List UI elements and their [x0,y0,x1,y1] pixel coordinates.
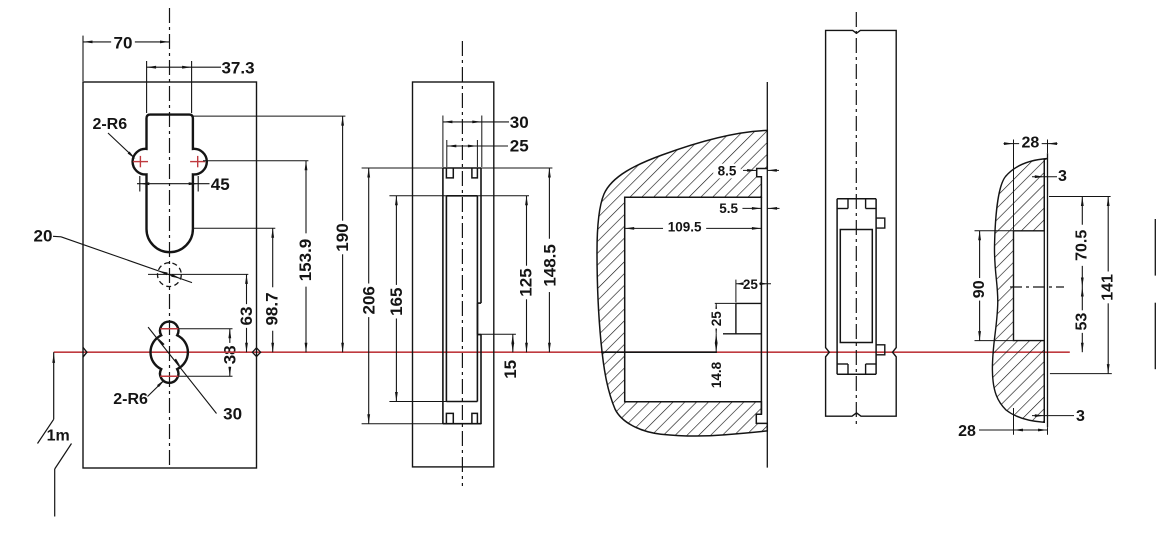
view4 bottom-left notch [837,363,848,365]
dim 148.5 text [541,239,558,292]
dim 153.9 arrows [305,161,308,171]
view1 left-edge break chevron at axis [83,347,87,357]
view2 outer rectangle [413,82,494,467]
dim 98.7 arrows [271,228,274,238]
view2 inner slot left edge [445,196,447,402]
dim 25h arrows [736,282,744,285]
dim 15 line [512,334,514,352]
dim 90 extensions [975,230,1014,232]
view4 slot top line [837,198,876,200]
dim 25v line [715,303,717,333]
view4 slot left edge [836,199,838,375]
view2 inner slot right edge [476,196,478,402]
view1 keyhole slot [133,115,207,253]
dim 190 extension [193,115,346,117]
dim 8.5 line left part [743,169,757,171]
view2 inner slot bottom line + extensions [389,401,477,403]
dim 141 text [1100,271,1116,303]
view5 wall inner line [1043,159,1045,423]
dim 153.9 text [297,233,314,286]
view2 top-right notch [472,168,478,178]
dim 38 arrows [228,329,231,339]
view1 vertical centerline [169,8,171,466]
dim 8.5 line right part [767,169,779,171]
dim 15 arrows [511,334,514,344]
svg-text:14.8: 14.8 [709,361,724,388]
red axis overlay across 38 text [221,351,240,353]
svg-text:5.5: 5.5 [719,201,738,216]
svg-text:28: 28 [958,423,976,440]
svg-text:38: 38 [221,345,240,364]
dim 70.5 extension [1049,196,1111,198]
view2 vertical centerline [461,41,463,486]
svg-text:63: 63 [237,307,256,326]
dim 28 top extensions [1013,140,1015,231]
dim 70 text [111,34,135,51]
dim 70.5 arrows [1081,197,1084,207]
scale 1m line upper [53,352,55,419]
dim 70.5 line [1081,197,1083,288]
dim 98.7 text [264,287,281,330]
view3 frame datum line (full height) [766,82,768,468]
view4 right ext notch lower [876,345,885,355]
dim 28 bottom arrows [1014,429,1024,432]
view2 slot right edge upper [480,168,482,303]
svg-text:8.5: 8.5 [718,164,737,179]
dim 28 bottom line [979,429,1048,431]
svg-text:25: 25 [743,277,759,292]
dim 90 line [979,231,981,341]
dim 109.5 arrows [625,227,635,230]
svg-text:190: 190 [333,223,352,251]
svg-text:15: 15 [501,360,520,379]
view3 latch step notch [736,302,762,304]
dim 98.7 extension [193,227,275,229]
dim 70.5 text [1074,225,1090,266]
label 2-R6 bottom leader [148,381,164,397]
view4 outer outline with break marks [826,30,897,416]
scale 1m break zigzag [38,419,54,443]
view5 hatched cap body [992,159,1047,423]
clover top red tick [160,328,178,330]
view4 top-right notch [866,208,877,210]
keyhole right ear red cross [190,161,205,163]
svg-text:206: 206 [360,286,379,314]
dim 63 text [238,304,255,328]
dim 8.5 text [713,164,740,179]
dim 14.8 extension black over axis [601,351,717,353]
keyhole left ear red cross [133,161,148,163]
dim 38 line [229,329,231,377]
view1 small circle (dia 20, dashed) [158,263,182,287]
dim 30 line [443,121,509,123]
dim 45 arrows [140,182,150,185]
view1 clover hole [151,322,188,383]
dim 125 line [526,196,528,352]
dim 63 line [246,274,248,352]
svg-text:1m: 1m [47,428,70,445]
dim 153.9 extension [203,160,308,162]
dim 3 top line [1032,176,1057,178]
dim 25h text [742,278,760,291]
label 2-R6 top leader [108,133,134,158]
view4 vertical centerline [855,12,857,427]
dim 45 line [137,183,210,185]
dim 37.3 arrows [147,66,157,69]
clover bottom red tick [160,375,178,377]
svg-text:25: 25 [510,137,529,156]
svg-text:98.7: 98.7 [263,292,282,325]
svg-text:70.5: 70.5 [1074,230,1091,261]
dim 125 text [517,266,534,300]
dim 165 line [395,196,397,402]
dim 28 top arrows [1004,142,1014,145]
view4 bottom-right notch [866,363,877,365]
dim 165 text [388,285,405,319]
dim 25h extension [735,280,737,303]
dim 70 line [83,41,170,43]
dim 141 line [1107,197,1109,374]
label 30 leader arrows [158,338,165,346]
dim 25 arrows [447,145,457,148]
dim 190 line [342,116,344,352]
dim 190 arrows [341,116,344,126]
dim 53 arrows [1081,287,1084,297]
dim 190 text [334,221,351,255]
dim 25 extensions [446,140,448,167]
view3 hatched section body [597,130,767,436]
svg-text:2-R6: 2-R6 [92,116,127,133]
dim 28 bottom extensions [1013,408,1015,435]
svg-text:37.3: 37.3 [221,58,254,77]
view4 slot bottom line [837,373,876,375]
view4 slot right edge [875,199,877,375]
dim 98.7 line [272,228,274,352]
dim 30 extensions [442,116,444,168]
svg-text:45: 45 [211,175,230,194]
dim 148.5 line [548,168,550,352]
dim 53 line [1081,287,1083,352]
view2 slot left edge [442,168,444,424]
view2 slot right edge lower [480,335,482,424]
dim 125 arrows [525,196,528,206]
dim 37.3 extensions [146,61,148,113]
dim 206 arrows [367,168,370,178]
dim 3 bottom line [1032,415,1074,417]
view4 right ext notch upper [876,218,885,228]
svg-text:125: 125 [517,268,536,296]
view4 inner rectangle [840,230,872,343]
dim 5.5 line right part [768,207,780,209]
svg-text:3: 3 [1058,168,1067,185]
svg-text:90: 90 [971,280,988,298]
svg-text:2-R6: 2-R6 [113,391,148,408]
view2 bottom-right notch [472,413,478,423]
view2 top-left notch [446,168,453,178]
dim 28 top line [1004,143,1058,145]
svg-text:3: 3 [1076,408,1085,425]
view5 horizontal centerline [1010,286,1064,288]
svg-text:165: 165 [387,288,406,316]
svg-text:109.5: 109.5 [668,220,702,235]
view5 wall outer line [1047,153,1049,427]
dim 109.5 text [663,220,706,235]
dim 30 arrows [443,121,453,124]
dim 206 text [361,284,378,318]
dim 53 text [1074,310,1090,333]
dim 206 line [368,168,370,424]
svg-text:148.5: 148.5 [541,244,560,287]
svg-text:30: 30 [223,405,242,424]
svg-text:70: 70 [114,33,133,52]
view1 right-edge diamond node at axis [252,348,260,357]
view3 cavity right edge [760,197,762,414]
view2 slot bottom line + extensions [362,423,482,425]
dim 5.5 line left part [738,207,762,209]
scale 1m line lower [54,469,56,517]
dim 63 extension [148,273,248,275]
dim 141 arrows [1107,197,1110,207]
svg-text:53: 53 [1074,313,1091,331]
dim 5.5 text [715,201,742,216]
dim 90 arrows [978,231,981,241]
svg-text:153.9: 153.9 [296,239,315,282]
label 30 leader [148,327,216,413]
view4 top-left notch [837,208,848,210]
svg-text:20: 20 [34,227,53,246]
dim 14.8 arrows [715,334,718,344]
dim 70 extension above plate [82,36,84,81]
svg-text:25: 25 [709,311,724,327]
label 20 leader [53,235,61,238]
svg-text:30: 30 [510,113,529,132]
red horizontal centerline (main axis) [54,351,1070,353]
view2 bottom-left notch [446,413,453,423]
dim 148.5 arrows [548,168,551,178]
dim 38 text [221,343,238,367]
dim 25 line [447,145,508,147]
dim 70 arrows [83,41,93,44]
dim 63 arrows [245,274,248,284]
view2 inner slot top line + extensions [389,195,529,197]
dim 109.5 line [625,227,762,229]
label 20 leader arrows [158,271,167,276]
dim 141 extension bottom [1050,373,1112,375]
dim 28 top text [1019,135,1042,151]
dim 165 arrows [395,196,398,206]
dim 153.9 line [305,161,307,353]
dim 25v arrows [715,303,718,313]
dim 37.3 line [147,66,221,68]
view2 slot top line + extensions [362,167,553,169]
dim 90 text [971,278,987,301]
dim 38 extensions [178,328,232,330]
dim 45 stubs [139,176,141,192]
dim 25v text [709,309,724,329]
right margin vertical segment upper [1154,219,1156,276]
view2 slot right jog [478,302,482,304]
dim 25v extension [715,302,736,304]
right margin vertical segment lower [1154,303,1156,370]
view1 plate outline [83,82,257,468]
svg-text:28: 28 [1022,135,1040,152]
dim 25h line [736,283,771,285]
dim 15 extension [478,333,516,335]
dim 14.8 line [715,334,717,352]
svg-text:141: 141 [1100,274,1117,301]
